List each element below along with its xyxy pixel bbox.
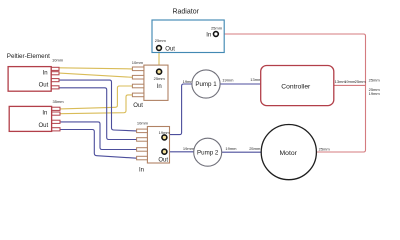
- Peltier2 tab1: [52, 107, 60, 110]
- Peltier2 tab3: [52, 120, 60, 123]
- Peltier element 2 body: [9, 106, 51, 131]
- Peltier2 tab4: [52, 128, 60, 131]
- svg-text:19mm: 19mm: [369, 91, 381, 96]
- collector body (lower tan box): [147, 127, 169, 164]
- collector tab4: [137, 156, 148, 160]
- svg-text:Out: Out: [165, 46, 175, 52]
- wire blue: Pump 2 outlet to Motor inlet: [222, 151, 262, 153]
- distribution manifold body (upper tan box): [144, 65, 168, 100]
- svg-text:In: In: [139, 168, 144, 174]
- wire blue: Peltier2 Out tab4 to collector tab4: [60, 130, 136, 159]
- svg-text:In: In: [43, 71, 48, 77]
- svg-text:Out: Out: [158, 158, 168, 164]
- port collector top (19mm to Pump1): [162, 135, 167, 140]
- svg-text:In: In: [157, 84, 162, 90]
- svg-text:Pump 1: Pump 1: [195, 81, 217, 88]
- Peltier1 tab3: [51, 79, 59, 82]
- svg-text:Out: Out: [133, 103, 143, 109]
- svg-text:Pump 2: Pump 2: [197, 149, 219, 156]
- svg-text:In: In: [42, 110, 47, 116]
- collector tab1: [137, 129, 148, 133]
- pump P2: [194, 138, 222, 166]
- svg-text:25mm: 25mm: [369, 78, 381, 83]
- wire red: controller to main red line: [334, 84, 366, 86]
- svg-text:Radiator: Radiator: [172, 9, 199, 16]
- svg-text:25mm: 25mm: [211, 26, 223, 31]
- Peltier1 tab4: [51, 86, 59, 89]
- svg-text:In: In: [206, 32, 211, 38]
- wire yellow: manifold tab4 to Peltier2 In tab2: [60, 95, 132, 114]
- Peltier2 tab2: [52, 112, 60, 115]
- wire blue: Peltier1 Out tab3 to collector tab1: [59, 80, 136, 131]
- controller box: [261, 66, 334, 106]
- wire blue: collector bottom port to Pump 2 inlet: [168, 151, 194, 153]
- port manifold In (25mm): [157, 69, 162, 74]
- Peltier1 tab1: [51, 67, 59, 70]
- port radiator Out: [157, 46, 162, 51]
- svg-text:25mm: 25mm: [355, 79, 367, 84]
- wire blue: Pump 1 outlet to Controller: [220, 83, 261, 85]
- svg-text:25mm: 25mm: [249, 146, 261, 151]
- wire yellow: manifold tab1 to Peltier1 In tab1: [59, 68, 132, 69]
- wire yellow: manifold tab3 to Peltier2 In tab1: [60, 86, 132, 109]
- manifold tab3: [132, 84, 144, 88]
- port collector bottom (19mm to Pump2): [162, 149, 167, 154]
- wire yellow: radiator Out down to manifold In port: [158, 51, 160, 72]
- svg-text:10mm: 10mm: [52, 58, 64, 63]
- svg-text:10mm: 10mm: [137, 121, 149, 126]
- svg-text:Motor: Motor: [280, 150, 298, 157]
- port radiator In: [214, 32, 219, 37]
- svg-text:Peltier-Element: Peltier-Element: [7, 53, 50, 60]
- wire red: radiator In to motor right (main 25mm loop): [218, 34, 365, 152]
- svg-text:19mm: 19mm: [225, 146, 237, 151]
- svg-text:Out: Out: [39, 123, 49, 129]
- wire yellow: manifold tab2 to Peltier1 In tab2: [59, 73, 132, 77]
- manifold tab2: [132, 75, 144, 79]
- svg-text:25mm: 25mm: [155, 38, 167, 43]
- wire blue: collector top port to Pump 1 inlet: [166, 84, 192, 135]
- wire blue: Peltier1 Out tab4 to collector tab2: [59, 88, 136, 140]
- svg-text:35mm: 35mm: [53, 99, 65, 104]
- svg-text:25mm: 25mm: [319, 146, 331, 151]
- svg-text:Out: Out: [39, 82, 49, 88]
- svg-text:19mm: 19mm: [222, 78, 234, 83]
- manifold tab4: [132, 93, 144, 97]
- svg-text:19mm: 19mm: [183, 146, 195, 151]
- svg-text:Controller: Controller: [281, 83, 311, 90]
- svg-text:10mm: 10mm: [132, 60, 144, 65]
- collector tab2: [137, 138, 148, 142]
- wire blue: Peltier2 Out tab3 to collector tab3: [60, 122, 136, 150]
- Peltier1 tab2: [51, 72, 59, 75]
- manifold tab1: [132, 67, 144, 71]
- radiator box: [152, 20, 224, 53]
- pump P1: [192, 70, 220, 98]
- svg-text:25mm: 25mm: [154, 76, 166, 81]
- collector tab3: [137, 148, 148, 152]
- Peltier element 1 body: [8, 67, 51, 92]
- motor M1: [261, 125, 316, 180]
